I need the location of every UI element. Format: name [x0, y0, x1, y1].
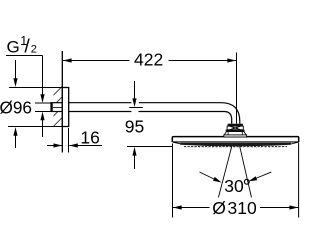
svg-text:Ø96: Ø96 — [0, 98, 32, 118]
svg-text:30: 30 — [224, 176, 244, 196]
svg-text:/: / — [24, 35, 30, 57]
svg-text:G: G — [7, 37, 20, 56]
svg-text:16: 16 — [80, 128, 99, 148]
svg-text:Ø: Ø — [212, 198, 226, 218]
svg-text:422: 422 — [134, 50, 163, 70]
svg-text:95: 95 — [125, 117, 144, 137]
svg-text:2: 2 — [31, 43, 37, 55]
svg-text:310: 310 — [228, 198, 257, 218]
